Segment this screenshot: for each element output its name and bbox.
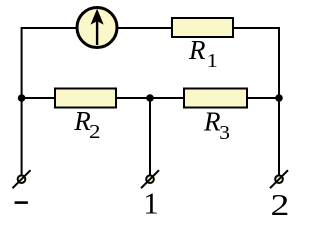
svg-text:R: R [188,35,206,65]
svg-text:1: 1 [207,49,218,72]
svg-text:3: 3 [219,122,230,143]
svg-text:2: 2 [271,188,290,218]
svg-text:1: 1 [143,186,159,218]
svg-text:2: 2 [89,121,101,143]
